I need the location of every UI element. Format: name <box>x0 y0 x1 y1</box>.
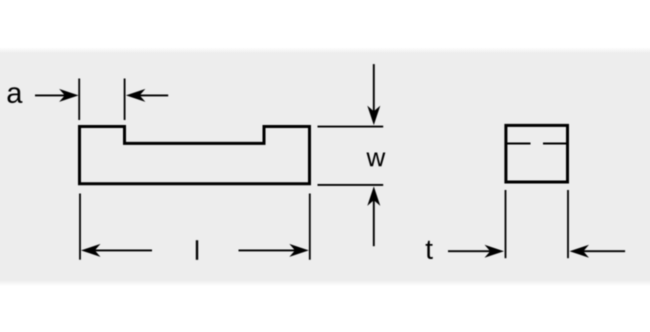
dimension w: down arrowhead <box>367 106 380 126</box>
dimension a: left extension line <box>78 79 80 121</box>
dimension a: right arrow line <box>139 94 168 96</box>
dimension l: right extension line <box>309 194 311 260</box>
dimension t: right extension line <box>567 190 569 258</box>
dimension t: right arrowhead <box>570 245 590 258</box>
right figure: end view square outline <box>506 125 568 182</box>
label l <box>196 240 198 260</box>
dimension a: left arrow line <box>35 94 66 96</box>
dimension l: right arrowhead <box>289 244 309 257</box>
dimension l: right arrow line <box>239 249 296 251</box>
dimension w: down arrow line <box>373 64 375 112</box>
dimension t: left arrowhead <box>485 245 505 258</box>
label w <box>366 152 385 166</box>
label t <box>426 241 433 259</box>
right figure: inner broken line left segment <box>506 143 531 145</box>
dimension a: left arrowhead <box>59 89 79 102</box>
dimension t: right arrow line <box>583 250 625 252</box>
dimension a: right arrowhead <box>126 89 145 102</box>
label a <box>8 87 23 103</box>
dimension l: left extension line <box>79 194 81 260</box>
dimension w: lower extension line <box>318 184 384 186</box>
dimension w: up arrow line <box>373 200 375 246</box>
dimension t: left extension line <box>505 190 507 258</box>
gray background band <box>0 47 650 286</box>
dimension l: left arrow line <box>95 249 152 251</box>
dimension t: left arrow line <box>448 250 490 252</box>
right figure: inner broken line right segment <box>543 143 568 145</box>
dimension a: right extension line <box>124 79 126 121</box>
left figure: component profile outline <box>80 127 310 184</box>
dimension l: left arrowhead <box>81 244 101 257</box>
dimension w: up arrowhead <box>367 186 380 206</box>
dimension w: upper extension line <box>318 126 384 128</box>
